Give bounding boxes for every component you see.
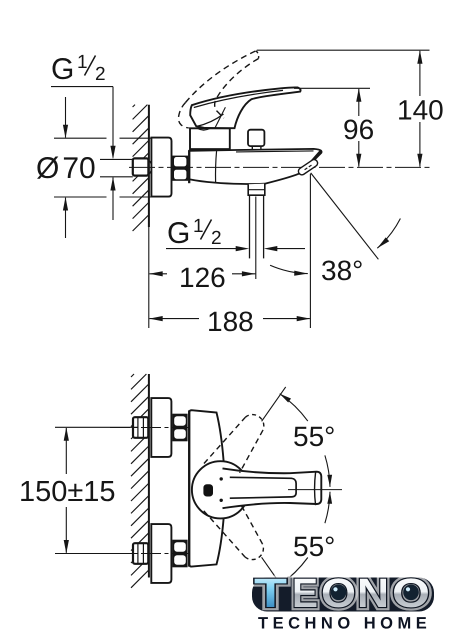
wall hatching (plan view) xyxy=(131,374,149,588)
55 degree arcs xyxy=(280,394,308,421)
svg-text:T: T xyxy=(254,570,287,616)
shower pipe centre extension xyxy=(255,197,257,280)
escutcheon flange (O70) xyxy=(151,138,171,197)
svg-text:1: 1 xyxy=(193,216,204,237)
upper escutcheon xyxy=(151,398,171,457)
lever front crease xyxy=(196,114,223,127)
svg-text:TECHNO HOME: TECHNO HOME xyxy=(258,615,431,633)
dimension 140 xyxy=(257,49,430,51)
upper supply fitting xyxy=(133,417,148,438)
svg-text:38°: 38° xyxy=(321,255,363,286)
svg-text:Ø70: Ø70 xyxy=(36,152,96,185)
svg-text:96: 96 xyxy=(343,114,374,145)
handle knob (plan view) xyxy=(192,461,249,518)
svg-text:E: E xyxy=(292,570,318,616)
svg-text:55°: 55° xyxy=(293,531,335,562)
G1/2 extension lines xyxy=(100,158,133,160)
svg-text:1: 1 xyxy=(77,52,88,73)
wall hatching (top view) xyxy=(133,105,150,231)
lever top inner line xyxy=(194,90,283,107)
body left edge bold xyxy=(188,410,190,566)
O letter centres xyxy=(331,585,347,601)
svg-text:G: G xyxy=(167,217,190,250)
faucet body (plan view) xyxy=(189,410,223,566)
aerator capsule at spout tip xyxy=(297,158,319,176)
lower connection nut xyxy=(172,540,187,568)
faucet body and spout xyxy=(189,149,321,184)
upper connection nut xyxy=(172,414,187,442)
wall line (top view) xyxy=(148,105,150,227)
wall line (plan view) xyxy=(148,374,150,578)
knob logo blob xyxy=(203,484,213,496)
lever handle (rest position) xyxy=(190,87,300,128)
spout tip end face (bold) xyxy=(303,151,321,171)
dimension 38 degrees xyxy=(311,173,379,259)
G1/2 supply pipe square xyxy=(133,158,149,175)
handle blade inner face xyxy=(230,477,296,498)
body left edge bold xyxy=(188,150,190,183)
lower union centre line xyxy=(110,553,196,555)
centre line at handle tip xyxy=(288,489,342,491)
supply pipe bulge behind wall xyxy=(149,160,152,174)
dimension 150 +/- 15 xyxy=(55,426,138,428)
centre line (top view) xyxy=(129,166,431,168)
spout top inner line xyxy=(236,151,314,152)
handle swung positions (dashed) xyxy=(204,417,245,463)
svg-text:126: 126 xyxy=(179,262,226,293)
diverter knob xyxy=(248,130,264,146)
svg-text:N: N xyxy=(357,570,389,616)
lever raised position (dashed) xyxy=(186,51,257,103)
svg-text:188: 188 xyxy=(207,306,254,337)
dimension 96 xyxy=(294,87,370,89)
handle tip cap seam xyxy=(315,472,316,505)
svg-text:2: 2 xyxy=(211,228,222,249)
svg-text:150±15: 150±15 xyxy=(19,476,116,508)
connection nut xyxy=(172,156,188,181)
lever chin arc xyxy=(198,128,211,130)
dimension 126 xyxy=(149,273,167,275)
svg-text:140: 140 xyxy=(397,95,444,126)
cartridge housing xyxy=(190,128,230,149)
lower supply fitting xyxy=(133,543,148,564)
dimension 188 xyxy=(148,227,150,328)
handle blade (plan view) xyxy=(228,469,321,507)
upper union centre line xyxy=(110,427,196,429)
knob dots xyxy=(220,477,223,480)
shower outlet collar xyxy=(248,184,265,196)
G1/2 leader lines xyxy=(51,86,113,88)
55 degree axis lines xyxy=(262,387,286,421)
svg-text:G: G xyxy=(51,53,74,86)
svg-text:55°: 55° xyxy=(293,421,335,452)
shower outlet pipe xyxy=(249,195,251,258)
body seam xyxy=(216,151,217,183)
svg-text:2: 2 xyxy=(95,64,106,85)
diverter knob stem xyxy=(252,144,261,149)
lower escutcheon xyxy=(151,524,171,583)
